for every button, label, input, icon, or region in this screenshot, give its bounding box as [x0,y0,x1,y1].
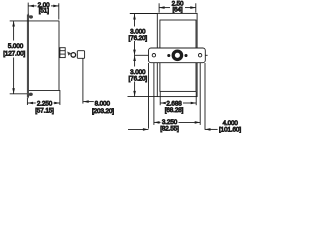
dimension 3.000 [76.20] upper (right view top to centerline) [130,14,158,56]
svg-text:5.000: 5.000 [8,43,24,50]
right view: outer box [157,13,197,96]
right view: left tiny dot [167,54,170,57]
svg-text:[82.55]: [82.55] [160,126,179,133]
svg-text:[203.20]: [203.20] [92,108,114,115]
left view: plate bottom hook [29,93,33,96]
right view: wall bar (rounded, occludes body) [149,48,206,63]
dimension 2.250 [57.15] (bottom of left view) [27,90,60,105]
left view: wall plate (thick vertical plate, side view) [27,3,29,97]
svg-text:[127.00]: [127.00] [3,50,25,57]
left view: ball stud circle [71,53,76,58]
dimension 5.000 [127.00] (left of left view) [10,21,27,94]
right view: center ball ring [173,51,181,59]
dimension 8.000 [203.20] (depth, arrow to extension line) [83,58,94,103]
svg-text:8.000: 8.000 [95,101,111,108]
left view: body bottom edge [29,89,60,91]
dimension 2.50 [64] (top of right view) [159,3,196,12]
right view: bar centerline nub right [205,54,207,56]
left view: screw wedge [67,52,71,56]
dimension 3.000 [76.20] lower (centerline to bottom) [128,56,158,97]
svg-text:[76.20]: [76.20] [129,35,148,42]
svg-text:[76.20]: [76.20] [129,75,148,82]
svg-text:[57.15]: [57.15] [35,107,54,114]
dimension 4.000 [101.60] (bar width) [128,63,218,131]
right view: inner box [160,20,196,91]
left view: body top edge (with 5.000 extension to left) [10,20,60,22]
right view: right tiny dot [184,54,187,57]
svg-text:[101.60]: [101.60] [219,126,241,133]
left view: plate top hook [29,15,33,18]
svg-text:[51]: [51] [39,7,49,14]
right view: right screw hole [198,54,201,57]
left view: clamp square [77,51,84,59]
left view: knob flange (striped box on right edge) [60,48,65,58]
dimension 2.00 [51] (top of left view) [28,3,58,19]
dimension 2.688 [68.28] (inner width) [160,92,196,106]
dimension 3.250 [82.55] (hole spacing) [154,63,200,125]
svg-text:[68.28]: [68.28] [165,107,184,114]
svg-text:[64]: [64] [172,6,182,13]
right view: left screw hole [152,54,155,57]
left view: body right edge [58,21,60,91]
